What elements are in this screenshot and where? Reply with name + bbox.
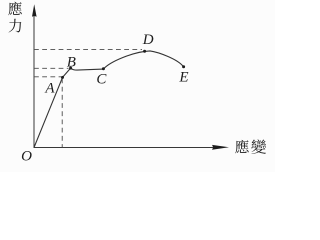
y-axis arrowhead [32, 4, 37, 17]
svg-text:D: D [142, 32, 154, 48]
point B [69, 67, 72, 70]
point C [102, 67, 105, 70]
point A [61, 76, 64, 79]
segment O to A [34, 77, 63, 147]
segment A to B [63, 68, 71, 77]
curve C to D to E [103, 51, 183, 69]
dashed vertical through A [61, 79, 63, 148]
yield plateau B to C [71, 68, 104, 70]
point E [182, 65, 185, 68]
dashed line at B level [34, 67, 69, 69]
x-axis arrowhead [212, 145, 229, 150]
axis label 應變 (strain) [235, 139, 266, 154]
x-axis [34, 147, 214, 149]
svg-text:C: C [96, 72, 107, 88]
axis label 應力 (stress) [8, 2, 22, 33]
svg-text:E: E [178, 70, 188, 86]
y-axis [33, 8, 35, 148]
dashed line at D level [34, 49, 142, 51]
dashed line at A level [34, 76, 61, 78]
svg-text:B: B [67, 54, 76, 70]
svg-text:O: O [21, 148, 32, 164]
svg-text:A: A [44, 81, 55, 97]
point D [143, 50, 146, 53]
